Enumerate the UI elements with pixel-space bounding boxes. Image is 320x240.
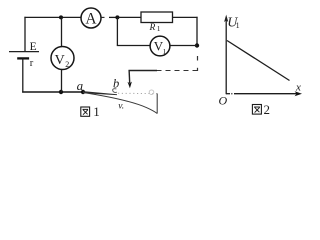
wire after ammeter (broken scan) <box>101 16 105 18</box>
slider probe arrow <box>128 70 131 83</box>
wire bottom rail <box>22 91 83 93</box>
node junction dot bottom V2 <box>59 90 63 94</box>
voltmeter V2 <box>51 47 74 70</box>
svg-text:r: r <box>30 58 34 69</box>
node terminal a dot <box>81 90 85 94</box>
svg-text:2: 2 <box>65 60 69 69</box>
wire dashed slider vertical <box>197 56 199 61</box>
wire slider solid horizontal <box>129 70 158 72</box>
caption 图1 glyph <box>81 107 90 116</box>
svg-text:1: 1 <box>93 104 100 119</box>
wire to R1 <box>117 16 141 18</box>
dotted contact line <box>118 92 157 94</box>
battery E long plate <box>9 51 39 53</box>
svg-text:v.: v. <box>118 102 124 112</box>
node junction dot top-left <box>59 15 63 19</box>
ammeter A <box>81 8 101 28</box>
node junction dot V1 right <box>195 43 199 47</box>
wire V1 branch left vertical <box>116 17 118 45</box>
wedge right vertical <box>156 94 158 114</box>
svg-text:a: a <box>77 78 84 93</box>
svg-text:O: O <box>219 94 228 108</box>
wire V2 branch upper <box>61 17 63 46</box>
svg-text:1: 1 <box>163 47 167 56</box>
svg-text:E: E <box>30 41 37 53</box>
svg-text:1: 1 <box>157 24 161 33</box>
svg-text:b: b <box>113 76 119 90</box>
wire battery negative down <box>22 58 24 92</box>
wire V1 left horizontal <box>117 45 150 47</box>
node junction dot top-right of A <box>115 15 119 19</box>
wire dashed slider horizontal <box>156 70 198 72</box>
svg-text:1: 1 <box>236 21 240 30</box>
svg-text:A: A <box>85 11 97 28</box>
caption 图2 glyph <box>252 105 261 115</box>
voltmeter V1 <box>150 36 170 56</box>
graph y-axis U1 <box>225 17 227 94</box>
pencil lead taper ab <box>83 91 117 95</box>
wire right vertical <box>196 17 198 46</box>
wire left vertical to battery <box>24 17 26 52</box>
wire V1 right horizontal <box>170 45 197 47</box>
wire top rail left <box>24 16 81 18</box>
graph line U1 vs x <box>227 41 290 81</box>
svg-text:2: 2 <box>264 102 271 117</box>
contact hook at b <box>113 89 117 93</box>
battery E short plate <box>17 57 29 59</box>
wire R1 to right corner <box>173 16 198 18</box>
svg-text:x: x <box>295 82 301 94</box>
faint circle on dotted line <box>149 90 154 95</box>
svg-text:R: R <box>149 23 156 33</box>
svg-text:V: V <box>55 53 65 68</box>
sagging wire curve <box>83 93 157 114</box>
graph x-axis <box>226 93 230 95</box>
resistor R1 box <box>141 12 173 23</box>
wire V2 branch lower <box>61 69 63 92</box>
